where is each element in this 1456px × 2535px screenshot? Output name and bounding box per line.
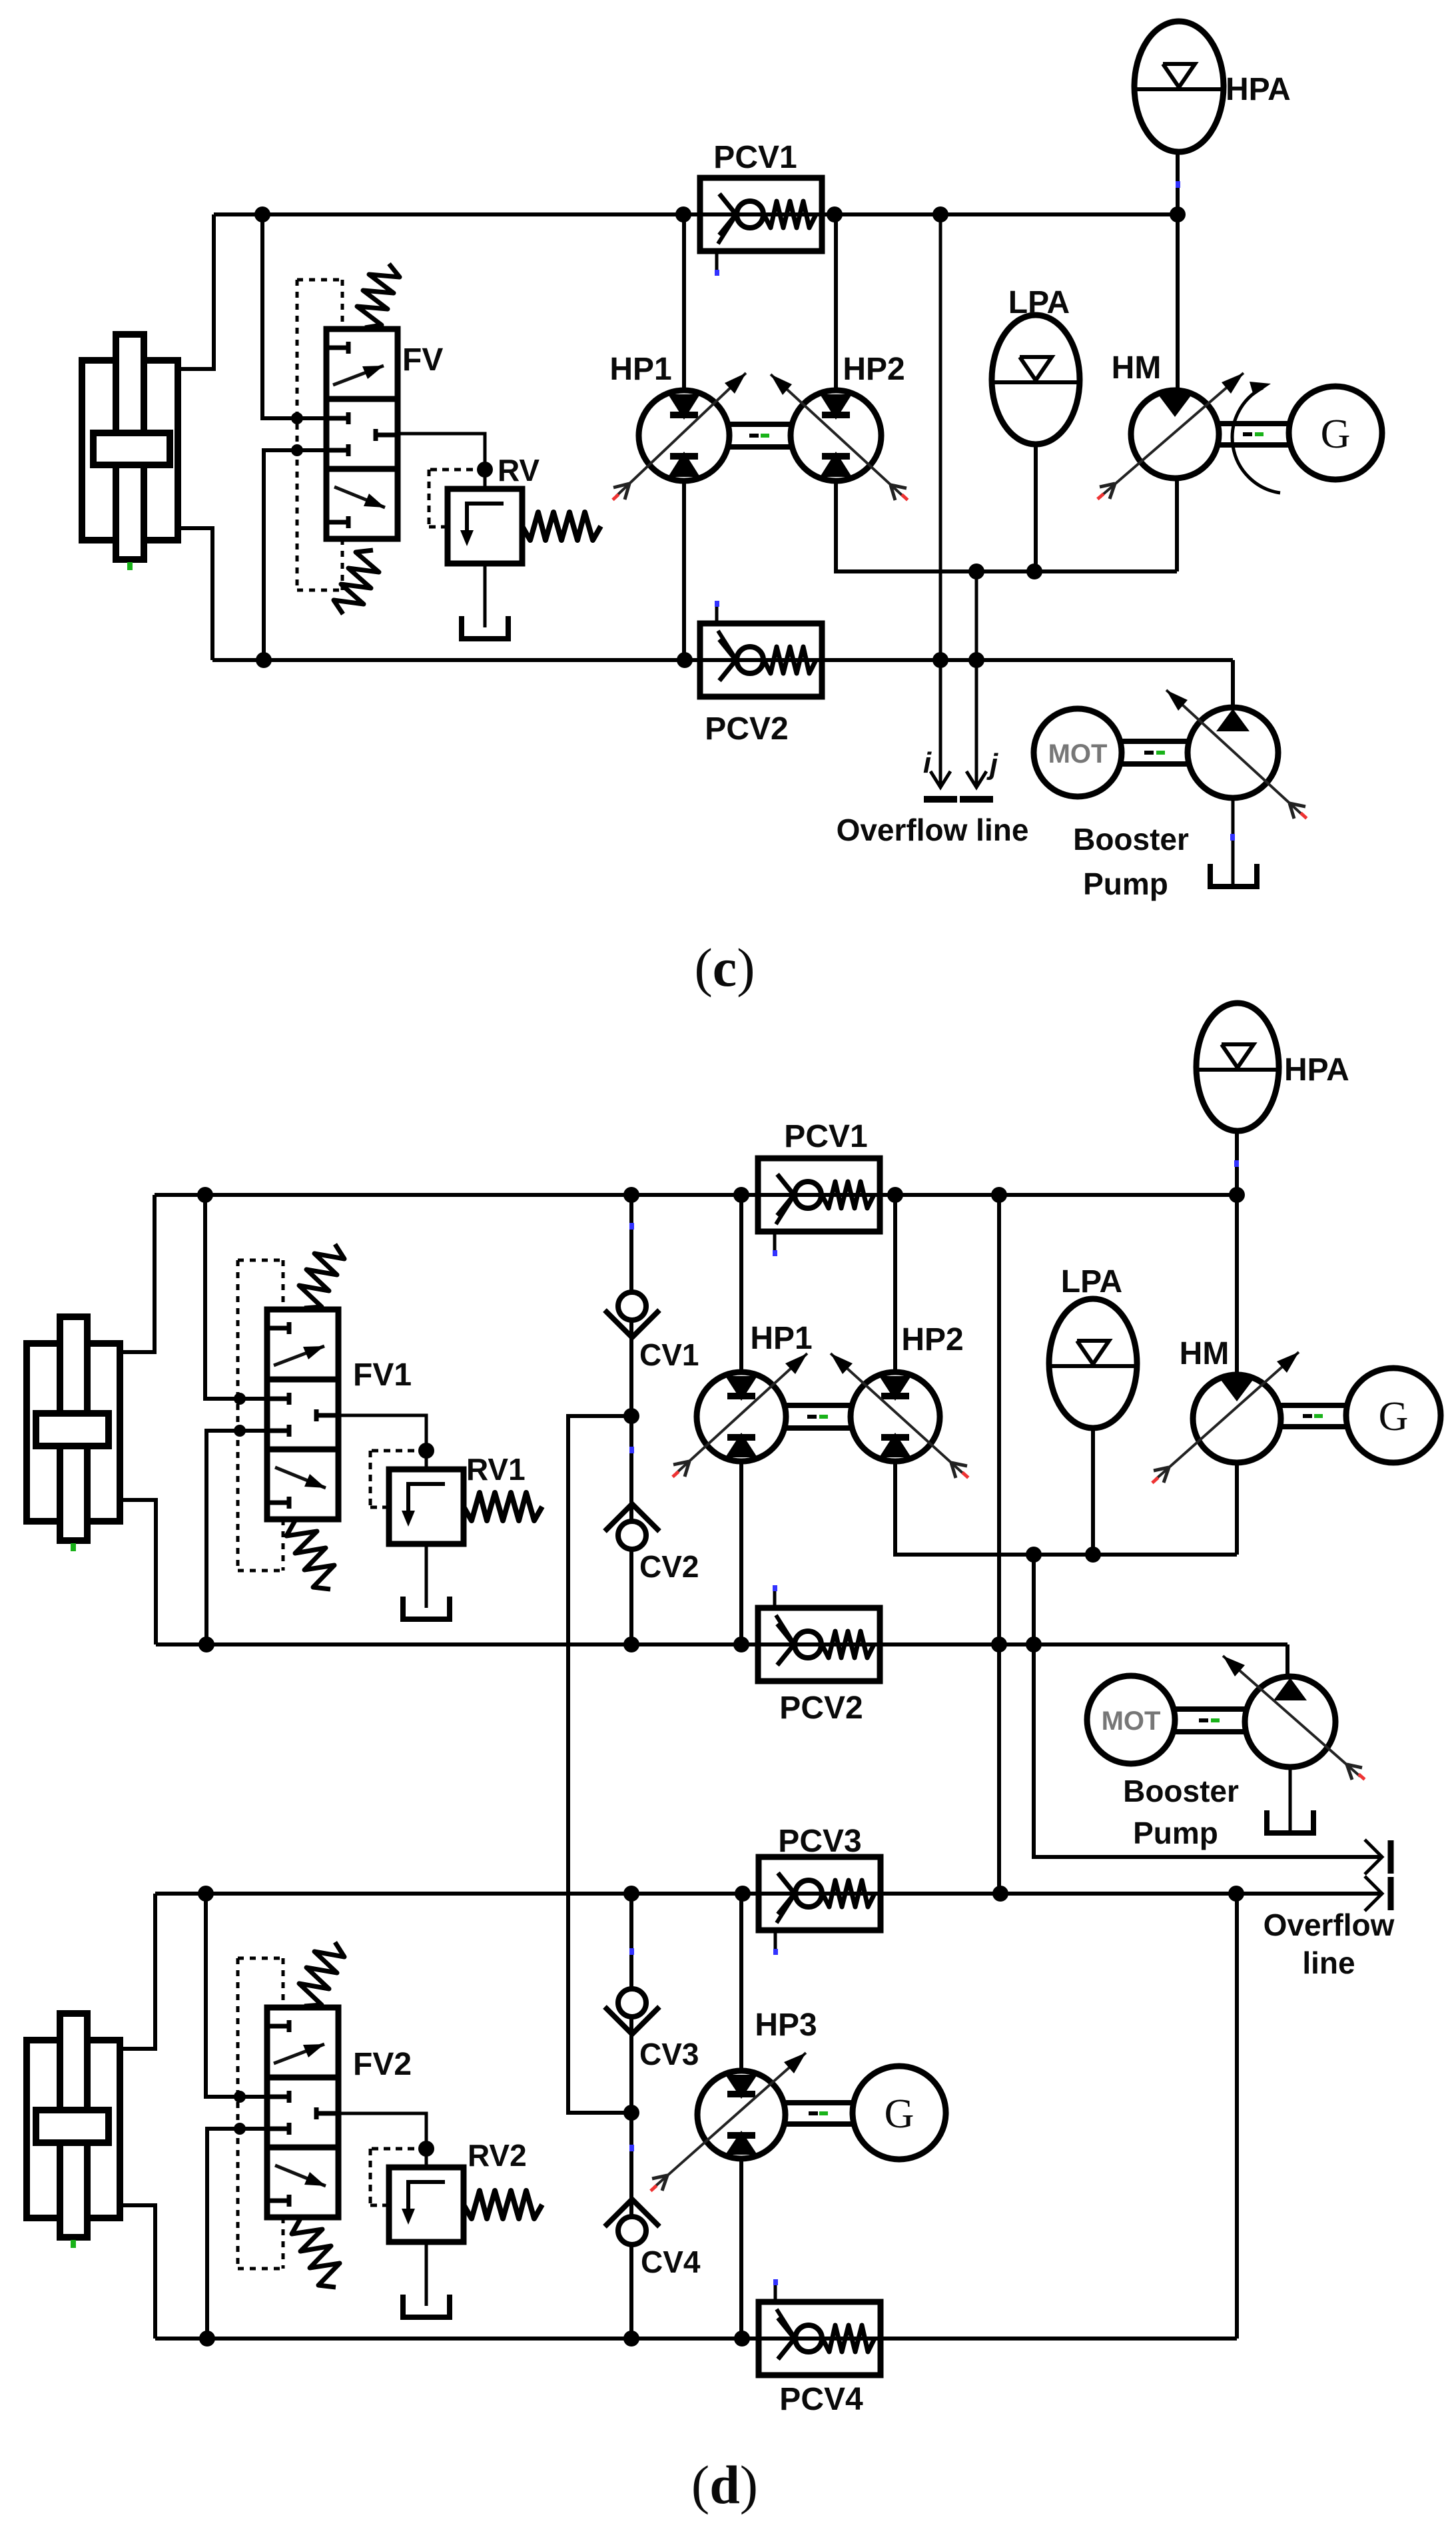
check valve CV1 (d)	[605, 1223, 659, 1337]
wire HP3 top (d)	[739, 1894, 743, 2071]
overflow arrow upper (d)	[1365, 1840, 1391, 1874]
node HP1-rail junction (d)	[733, 1187, 749, 1203]
booster pump (c)	[1166, 690, 1307, 820]
svg-text:HP2: HP2	[843, 352, 905, 387]
svg-text:FV2: FV2	[353, 2047, 412, 2082]
wire cylinder bottom (c)	[178, 528, 212, 660]
shaft HP3-G (d)	[785, 2103, 853, 2124]
svg-text:CV4: CV4	[641, 2245, 701, 2279]
node LPA junction (d)	[1085, 1547, 1101, 1563]
svg-text:HM: HM	[1112, 350, 1162, 386]
pilot dashed lines FV2 (d)	[238, 1958, 283, 2269]
node j-line bottom junction (c)	[968, 652, 984, 668]
directional valve FV2 (d)	[267, 1942, 344, 2287]
node HP2-rail junction (d)	[887, 1187, 903, 1203]
label PCV2 (c)	[705, 711, 788, 747]
svg-text:HP3: HP3	[755, 2007, 817, 2043]
node HP3-rail junction (d)	[735, 1886, 751, 1902]
node j-line rail1 junction (c)	[968, 563, 984, 579]
node CV3-rail junction (d)	[623, 1886, 639, 1902]
wire HP2 top (c)	[834, 214, 838, 390]
label CV4	[641, 2245, 701, 2279]
pilot dashed lines FV (c)	[297, 280, 342, 590]
svg-text:PCV2: PCV2	[779, 1690, 863, 1726]
svg-text:PCV1: PCV1	[713, 140, 797, 175]
node HPA junction (d)	[1229, 1187, 1245, 1203]
node FV1 pilot A (d)	[234, 1393, 246, 1405]
generator G (c)	[1289, 386, 1382, 480]
check valve PCV4 (d)	[759, 2279, 881, 2375]
hydraulic motor HM (c)	[1096, 373, 1244, 500]
wire down line x1500 (d)	[997, 1195, 1001, 1894]
accumulator LPA (d)	[1049, 1299, 1137, 1428]
svg-text:line: line	[1302, 1946, 1355, 1980]
label FV2	[353, 2047, 412, 2082]
label Pump (c)	[1083, 867, 1168, 901]
svg-text:RV1: RV1	[466, 1452, 526, 1487]
node FV pilot B (c)	[291, 444, 303, 456]
svg-text:HP1: HP1	[609, 352, 671, 387]
directional valve FV1 (d)	[267, 1244, 344, 1589]
wire cylinder top to rail (c)	[178, 214, 214, 369]
node HP1-bottom junction (c)	[677, 652, 693, 668]
generator G (d)	[1346, 1368, 1441, 1463]
svg-text:MOT: MOT	[1048, 739, 1108, 769]
wire bottom rail (d)	[155, 2337, 1237, 2341]
wire HP3 bottom (d)	[739, 2159, 743, 2339]
shaft MOT-pump (d)	[1175, 1709, 1245, 1732]
svg-text:CV2: CV2	[639, 1549, 699, 1584]
wire LPA stem (c)	[1034, 444, 1038, 571]
relief valve RV1 (d)	[338, 1415, 542, 1619]
pilot dashed lines FV1 (d)	[238, 1260, 283, 1571]
node CV1-CV2 junction (d)	[623, 1408, 639, 1424]
wire FV port A up (c)	[262, 214, 326, 418]
label PCV1 (c)	[713, 140, 797, 175]
svg-text:Booster: Booster	[1123, 1774, 1239, 1808]
caption (c)	[694, 937, 755, 998]
svg-text:G: G	[1321, 412, 1351, 457]
node HP1-rail junction (c)	[675, 206, 691, 222]
svg-text:HPA: HPA	[1226, 72, 1291, 107]
shaft HM-G (d)	[1281, 1405, 1346, 1427]
node i-line bottom junction (c)	[932, 652, 948, 668]
node downline-rail junction (d)	[991, 1187, 1007, 1203]
node FV1-B rail2 junction (d)	[198, 1636, 214, 1652]
node overflow junction (d)	[1228, 1886, 1244, 1902]
label CV3	[639, 2037, 699, 2071]
node FV2 pilot B (d)	[234, 2123, 246, 2135]
pump HP1 (d)	[671, 1353, 807, 1478]
svg-text:Overflow line: Overflow line	[837, 813, 1029, 847]
label Overflow line (c)	[837, 813, 1029, 847]
node HP3 bottom junction (d)	[734, 2331, 750, 2347]
label HP2 (d)	[901, 1322, 963, 1357]
node FV-B junction (c)	[256, 652, 272, 668]
wire PCV4 to overflow (d)	[1235, 1892, 1239, 2339]
overflow line i (c)	[923, 214, 957, 799]
node FV1-rail junction (d)	[197, 1187, 213, 1203]
svg-text:G: G	[885, 2091, 914, 2137]
svg-text:FV: FV	[402, 342, 443, 378]
generator G lower (d)	[853, 2066, 946, 2159]
wire HP1 top (d)	[739, 1195, 743, 1372]
booster pump drain (c)	[1230, 798, 1235, 884]
label FV	[402, 342, 443, 378]
overflow line j (c)	[960, 571, 998, 799]
label HPA (d)	[1284, 1052, 1349, 1088]
tank booster (d)	[1267, 1810, 1313, 1833]
node FV1 pilot B (d)	[234, 1425, 246, 1437]
wire cylinder1 top (d)	[119, 1195, 155, 1352]
directional valve FV (c)	[326, 264, 400, 614]
node LPA junction (c)	[1026, 563, 1042, 579]
svg-text:Pump: Pump	[1133, 1816, 1218, 1850]
label RV1	[466, 1452, 526, 1487]
wire PCV3 rail (d)	[155, 1892, 1382, 1896]
node x1552 rail1 junction (d)	[1026, 1547, 1042, 1563]
wire HPA-HM vertical (d)	[1235, 1131, 1239, 1375]
rotation arrow (c)	[1232, 382, 1280, 493]
label HP1 (c)	[609, 352, 671, 387]
check valve CV3 (d)	[605, 1948, 659, 2034]
hydraulic cylinder 2 (d)	[27, 2013, 120, 2248]
label line (d)	[1302, 1946, 1355, 1980]
label PCV4 (d)	[779, 2382, 863, 2417]
wire down line x1552 (d)	[1034, 1555, 1382, 1857]
svg-text:PCV3: PCV3	[778, 1824, 861, 1859]
check valve PCV2 (c)	[700, 601, 822, 697]
node CV1-rail junction (d)	[623, 1187, 639, 1203]
wire FV1 port B down (d)	[206, 1431, 267, 1644]
check valve PCV1 (c)	[700, 178, 822, 276]
node x1552 rail2 junction (d)	[1026, 1636, 1042, 1652]
label Overflow (d)	[1264, 1908, 1395, 1942]
wire rail2 (d)	[156, 1642, 1287, 1646]
pump HP3 (d)	[649, 2053, 806, 2192]
svg-text:RV2: RV2	[468, 2138, 527, 2173]
caption (d)	[691, 2454, 758, 2515]
accumulator LPA (c)	[992, 315, 1080, 444]
accumulator HPA (c)	[1134, 21, 1224, 188]
wire HM bottom (c)	[1175, 478, 1179, 571]
shaft HP1-HP2 (c)	[729, 424, 791, 447]
svg-text:HPA: HPA	[1284, 1052, 1349, 1088]
label RV2	[468, 2138, 527, 2173]
wire FV2 port A up (d)	[206, 1894, 267, 2097]
shaft HM-G (c)	[1219, 424, 1289, 445]
node CV4 bottom junction (d)	[623, 2331, 639, 2347]
pump HP1 (c)	[611, 373, 746, 501]
wire bottom rail (c)	[212, 658, 1233, 662]
node FV2-B bottom junction (d)	[199, 2331, 215, 2347]
motor MOT (d)	[1087, 1676, 1175, 1764]
svg-text:MOT: MOT	[1102, 1706, 1161, 1736]
hydraulic cylinder (c)	[82, 334, 178, 570]
svg-text:CV3: CV3	[639, 2037, 699, 2071]
wire HP1 bottom (c)	[682, 481, 686, 660]
relief valve RV (c)	[396, 434, 601, 639]
wire cylinder2 top (d)	[119, 1894, 155, 2049]
overflow arrow lower (d)	[1365, 1876, 1391, 1911]
hydraulic cylinder 1 (d)	[27, 1317, 120, 1551]
label Pump (d)	[1133, 1816, 1218, 1850]
booster pump drain (d)	[1289, 1767, 1292, 1830]
node HP2-rail junction (c)	[827, 206, 843, 222]
pump HP2 (c)	[771, 374, 909, 502]
svg-text:(d): (d)	[691, 2454, 758, 2515]
svg-text:i: i	[923, 747, 932, 779]
wire top rail (d)	[155, 1193, 1237, 1197]
label HM (c)	[1112, 350, 1162, 386]
node x1500 rail2 junction (d)	[991, 1636, 1007, 1652]
check valve PCV3 (d)	[759, 1857, 881, 1955]
wire CV column lower (d)	[629, 1894, 633, 2339]
svg-text:PCV4: PCV4	[779, 2382, 863, 2417]
svg-text:RV: RV	[498, 453, 540, 488]
wire FV1 port A up (d)	[205, 1195, 267, 1399]
accumulator HPA (d)	[1196, 1003, 1279, 1167]
wire HPA-HM vertical (c)	[1176, 152, 1180, 390]
label HP1 (d)	[750, 1321, 812, 1356]
svg-text:Overflow: Overflow	[1264, 1908, 1395, 1942]
node FV pilot A (c)	[291, 412, 303, 424]
wire FV2 port B down (d)	[207, 2129, 267, 2339]
label PCV2 (d)	[779, 1690, 863, 1726]
svg-text:LPA: LPA	[1061, 1264, 1122, 1299]
wire HP2 bottom to rail1 (d)	[895, 1461, 1237, 1555]
wire cylinder1 bottom (d)	[119, 1500, 156, 1644]
check valve CV2 (d)	[605, 1447, 659, 1549]
wire booster feed down (c)	[1231, 660, 1235, 708]
label HP3 (d)	[755, 2007, 817, 2043]
label PCV1 (d)	[784, 1119, 867, 1154]
svg-text:LPA: LPA	[1008, 285, 1070, 320]
label HPA (c)	[1226, 72, 1291, 107]
svg-text:HM: HM	[1180, 1336, 1230, 1371]
wire HP2 bottom to rail1 (c)	[836, 481, 1177, 571]
svg-text:G: G	[1379, 1394, 1409, 1439]
shaft MOT-pump (c)	[1122, 741, 1189, 764]
pump HP2 (d)	[831, 1353, 969, 1479]
label LPA (c)	[1008, 285, 1070, 320]
svg-text:(c): (c)	[694, 937, 755, 998]
label Booster (c)	[1073, 822, 1189, 857]
wire HP1 top (c)	[682, 214, 686, 390]
relief valve RV2 (d)	[338, 2113, 542, 2317]
svg-text:HP2: HP2	[901, 1322, 963, 1357]
node FV2 pilot A (d)	[234, 2091, 246, 2103]
svg-text:CV1: CV1	[639, 1337, 699, 1372]
label LPA (d)	[1061, 1264, 1122, 1299]
motor MOT (c)	[1034, 709, 1122, 797]
wire FV port B down (c)	[264, 450, 326, 660]
svg-text:PCV1: PCV1	[784, 1119, 867, 1154]
wire CV column upper (d)	[629, 1195, 633, 1644]
label FV1	[353, 1357, 412, 1393]
check valve PCV1 (d)	[758, 1158, 880, 1256]
wire LPA stem (d)	[1091, 1428, 1095, 1555]
svg-text:HP1: HP1	[750, 1321, 812, 1356]
svg-text:Booster: Booster	[1073, 822, 1189, 857]
label HM (d)	[1180, 1336, 1230, 1371]
check valve PCV2 (d)	[758, 1585, 880, 1681]
node HP1 rail2 junction (d)	[733, 1636, 749, 1652]
node FV-rail junction (c)	[254, 206, 270, 222]
wire cylinder2 bottom (d)	[119, 2205, 155, 2339]
wire HP2 top (d)	[893, 1195, 897, 1372]
node CV3-CV4 junction (d)	[623, 2105, 639, 2121]
hydraulic motor HM (d)	[1151, 1352, 1299, 1484]
tank booster (c)	[1210, 864, 1257, 887]
label PCV3 (d)	[778, 1824, 861, 1859]
label CV2	[639, 1549, 699, 1584]
node x1500 PCV3 junction (d)	[992, 1886, 1008, 1902]
wire HM bottom (d)	[1235, 1463, 1239, 1555]
svg-text:Pump: Pump	[1083, 867, 1168, 901]
wire booster feed (d)	[1285, 1644, 1289, 1677]
svg-text:PCV2: PCV2	[705, 711, 788, 747]
wire cross line down (d)	[568, 1416, 631, 2113]
wire top rail (c)	[214, 212, 1178, 216]
label HP2 (c)	[843, 352, 905, 387]
svg-text:FV1: FV1	[353, 1357, 412, 1393]
node i-line top junction (c)	[932, 206, 948, 222]
node HPA junction (c)	[1170, 206, 1186, 222]
node CV2 rail2 junction (d)	[623, 1636, 639, 1652]
label Booster (d)	[1123, 1774, 1239, 1808]
check valve CV4 (d)	[605, 2145, 659, 2245]
booster pump (d)	[1223, 1656, 1365, 1780]
label RV	[498, 453, 540, 488]
shaft HP1-HP2 (d)	[786, 1405, 851, 1428]
node FV2-rail junction (d)	[198, 1886, 214, 1902]
wire HP1 bottom (d)	[739, 1461, 743, 1644]
label CV1	[639, 1337, 699, 1372]
